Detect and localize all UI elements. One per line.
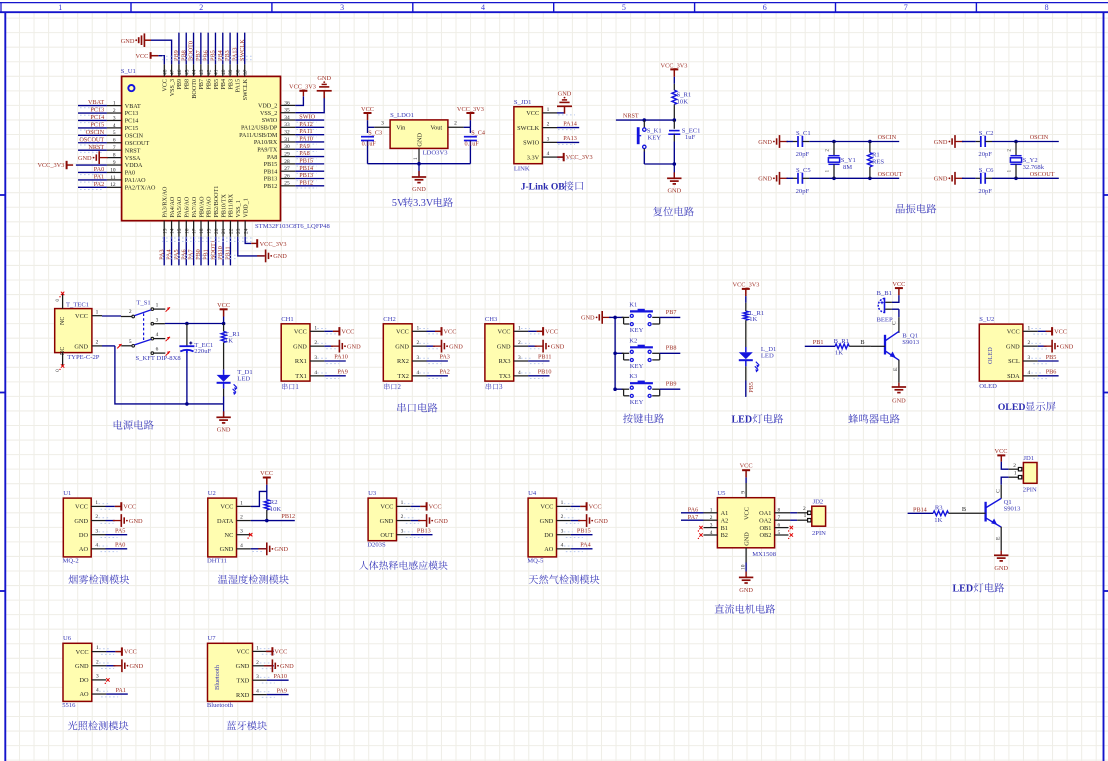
svg-text:5516: 5516	[62, 702, 76, 709]
svg-text:4: 4	[256, 689, 259, 695]
svg-text:OLED: OLED	[987, 347, 994, 364]
svg-text:LINK: LINK	[514, 166, 530, 173]
svg-text:1: 1	[314, 325, 317, 331]
svg-text:CH2: CH2	[383, 316, 395, 323]
svg-text:VDDA: VDDA	[125, 163, 143, 169]
svg-text:2: 2	[129, 309, 132, 315]
svg-text:8: 8	[1045, 3, 1049, 12]
svg-text:VCC: VCC	[1054, 328, 1067, 335]
svg-text:A2: A2	[721, 517, 729, 524]
svg-text:2: 2	[803, 506, 806, 512]
svg-text:43: 43	[199, 69, 205, 75]
svg-text:GND: GND	[1006, 343, 1020, 350]
svg-text:OLED: OLED	[979, 383, 997, 390]
svg-text:VCC: VCC	[498, 329, 511, 336]
svg-text:E: E	[996, 536, 1002, 540]
svg-text:PA3: PA3	[158, 249, 165, 259]
svg-text:VCC: VCC	[429, 504, 442, 511]
svg-text:20pF: 20pF	[796, 188, 810, 195]
svg-text:33: 33	[284, 122, 290, 128]
svg-text:PB7: PB7	[666, 309, 677, 316]
svg-text:PB10: PB10	[538, 368, 552, 375]
svg-text:23: 23	[236, 228, 242, 234]
svg-text:1K: 1K	[225, 337, 233, 344]
svg-text:GND: GND	[380, 518, 394, 525]
svg-text:PC15: PC15	[125, 126, 139, 132]
svg-text:11: 11	[110, 175, 115, 181]
svg-text:4: 4	[156, 332, 159, 338]
svg-text:OUT: OUT	[380, 532, 393, 539]
svg-text:SWIO: SWIO	[262, 118, 278, 124]
svg-text:S_C1: S_C1	[796, 130, 811, 137]
svg-text:PA12/USB/DP: PA12/USB/DP	[241, 126, 278, 132]
svg-text:1: 1	[256, 645, 259, 651]
svg-text:S_LDO1: S_LDO1	[390, 112, 414, 119]
svg-text:E: E	[893, 367, 899, 371]
svg-text:GND: GND	[78, 155, 92, 162]
svg-text:2: 2	[518, 340, 521, 346]
svg-text:3: 3	[1027, 355, 1030, 361]
svg-text:A1: A1	[721, 510, 729, 517]
svg-text:VCC: VCC	[75, 313, 88, 320]
svg-text:PB10/TX: PB10/TX	[221, 194, 227, 218]
svg-text:GND: GND	[667, 188, 681, 195]
svg-text:SDA: SDA	[1007, 373, 1020, 380]
svg-text:2: 2	[401, 514, 404, 520]
svg-text:1: 1	[96, 309, 99, 315]
svg-text:VCC_3V3: VCC_3V3	[37, 162, 64, 169]
svg-text:PB0/AO: PB0/AO	[199, 196, 205, 218]
svg-text:PB2/BOOT1: PB2/BOOT1	[214, 186, 220, 218]
svg-text:NC: NC	[225, 532, 234, 539]
svg-text:DO: DO	[79, 532, 89, 539]
svg-text:VCC: VCC	[294, 329, 307, 336]
svg-text:3: 3	[95, 528, 98, 534]
svg-text:PB5: PB5	[748, 382, 755, 393]
svg-text:220uF: 220uF	[194, 348, 211, 355]
svg-text:OSCIN: OSCIN	[125, 134, 144, 140]
svg-text:VCC: VCC	[396, 329, 409, 336]
svg-text:48: 48	[162, 69, 168, 75]
svg-text:PB4: PB4	[221, 79, 227, 90]
svg-text:PB8: PB8	[666, 345, 677, 352]
svg-text:PC14: PC14	[90, 114, 104, 121]
svg-text:1: 1	[413, 157, 419, 160]
svg-text:35: 35	[284, 108, 290, 114]
svg-text:NRST: NRST	[88, 144, 104, 151]
svg-text:PA12: PA12	[299, 121, 313, 128]
svg-text:PA11: PA11	[299, 128, 312, 135]
svg-text:GND: GND	[273, 253, 287, 260]
svg-text:PB5: PB5	[214, 79, 220, 90]
svg-text:J-Link OB: J-Link OB	[521, 182, 566, 193]
svg-text:PA5: PA5	[115, 528, 125, 535]
svg-text:PC13: PC13	[90, 107, 104, 114]
svg-text:GND: GND	[934, 176, 948, 183]
svg-text:VCC: VCC	[361, 106, 374, 113]
svg-text:2: 2	[95, 514, 98, 520]
svg-text:AO: AO	[544, 546, 554, 553]
svg-text:TX1: TX1	[295, 373, 307, 380]
svg-text:PC15: PC15	[90, 122, 104, 129]
svg-text:25: 25	[284, 181, 290, 187]
svg-text:NRST: NRST	[125, 148, 141, 154]
svg-text:GND: GND	[274, 546, 288, 553]
svg-text:RXD: RXD	[236, 692, 250, 699]
svg-text:VCC: VCC	[545, 328, 558, 335]
svg-text:PB15: PB15	[299, 158, 313, 165]
svg-text:41: 41	[214, 69, 220, 75]
svg-text:2: 2	[113, 108, 116, 114]
svg-text:PA4/AO: PA4/AO	[170, 196, 176, 217]
svg-text:29: 29	[284, 152, 290, 158]
svg-text:5: 5	[113, 130, 116, 136]
svg-text:MQ-2: MQ-2	[63, 558, 79, 565]
svg-text:B_B1: B_B1	[877, 290, 892, 297]
svg-text:VCC: VCC	[526, 110, 539, 117]
svg-text:42: 42	[206, 69, 212, 75]
svg-text:VCC_3V3: VCC_3V3	[289, 84, 316, 91]
svg-text:GND: GND	[347, 344, 361, 351]
svg-text:JD2: JD2	[813, 498, 824, 505]
svg-text:GND: GND	[220, 546, 234, 553]
svg-text:Vout: Vout	[430, 125, 442, 132]
svg-text:3.3V: 3.3V	[413, 198, 434, 209]
svg-text:GND: GND	[417, 133, 424, 147]
svg-text:DO: DO	[79, 677, 89, 684]
svg-text:AO: AO	[79, 691, 89, 698]
svg-text:GND: GND	[758, 139, 772, 146]
svg-text:GND: GND	[497, 343, 511, 350]
svg-text:VCC: VCC	[163, 79, 169, 92]
svg-text:TX3: TX3	[499, 373, 511, 380]
svg-text:3: 3	[156, 317, 159, 323]
svg-text:SWCLK: SWCLK	[517, 125, 539, 132]
svg-text:Bluetooth: Bluetooth	[207, 702, 234, 709]
svg-text:U1: U1	[63, 490, 71, 497]
svg-text:U4: U4	[528, 490, 537, 497]
svg-text:3: 3	[381, 121, 384, 127]
svg-text:S9013: S9013	[1004, 506, 1022, 513]
svg-text:PB10: PB10	[217, 246, 224, 260]
svg-text:PA9: PA9	[277, 687, 287, 694]
svg-text:5: 5	[622, 3, 626, 12]
svg-text:PB11/RX: PB11/RX	[229, 193, 235, 217]
svg-text:S9013: S9013	[902, 339, 920, 346]
svg-text:1: 1	[113, 101, 116, 107]
svg-text:5: 5	[129, 339, 132, 345]
svg-text:PA13: PA13	[563, 135, 577, 142]
svg-text:38: 38	[236, 69, 242, 75]
svg-text:B2: B2	[721, 532, 728, 539]
svg-text:PA1: PA1	[94, 174, 104, 181]
svg-text:OB2: OB2	[759, 532, 771, 539]
svg-text:44: 44	[192, 69, 198, 75]
svg-text:0.1uF: 0.1uF	[362, 141, 377, 148]
svg-text:2: 2	[256, 660, 259, 666]
svg-text:PA0: PA0	[115, 542, 125, 549]
svg-text:6: 6	[778, 523, 781, 529]
svg-text:B_R1: B_R1	[834, 338, 849, 345]
svg-text:VCC: VCC	[995, 448, 1008, 455]
svg-text:PA8: PA8	[299, 150, 309, 157]
svg-text:VCC_3V3: VCC_3V3	[457, 106, 484, 113]
svg-text:VCC_3V3: VCC_3V3	[566, 154, 593, 161]
svg-text:S_C5: S_C5	[796, 167, 811, 174]
svg-text:4: 4	[240, 543, 243, 549]
svg-text:OSCIN: OSCIN	[1030, 134, 1049, 141]
svg-text:PB8: PB8	[185, 79, 191, 90]
svg-text:U5: U5	[717, 490, 726, 497]
svg-text:2: 2	[454, 121, 457, 127]
svg-text:3: 3	[96, 674, 99, 680]
svg-text:6: 6	[113, 138, 116, 144]
svg-text:PB12: PB12	[281, 513, 295, 520]
svg-text:VCC: VCC	[589, 504, 602, 511]
svg-text:T_TEC1: T_TEC1	[66, 302, 89, 309]
svg-text:12: 12	[110, 182, 116, 188]
svg-text:VCC: VCC	[135, 53, 148, 60]
svg-text:10K: 10K	[270, 506, 282, 513]
svg-text:OSCOUT: OSCOUT	[878, 171, 903, 178]
svg-text:2PIN: 2PIN	[1023, 487, 1037, 494]
svg-text:30: 30	[284, 144, 290, 150]
svg-text:PA1/AO: PA1/AO	[125, 178, 146, 184]
svg-text:PA2: PA2	[439, 368, 449, 375]
svg-text:32: 32	[284, 130, 290, 136]
svg-text:GND: GND	[280, 663, 294, 670]
svg-text:45: 45	[184, 69, 190, 75]
svg-text:VDD_2: VDD_2	[258, 104, 277, 110]
svg-text:PB13: PB13	[417, 528, 431, 535]
svg-text:GND: GND	[892, 397, 906, 404]
svg-text:2: 2	[561, 514, 564, 520]
svg-text:C: C	[891, 321, 897, 325]
svg-text:PB7: PB7	[199, 79, 205, 90]
svg-text:GND: GND	[293, 343, 307, 350]
svg-text:U3: U3	[368, 490, 377, 497]
svg-text:1K: 1K	[749, 316, 757, 323]
svg-text:S_C4: S_C4	[471, 130, 485, 137]
svg-text:1K: 1K	[835, 350, 843, 357]
svg-text:OLED: OLED	[998, 402, 1026, 413]
svg-text:37: 37	[243, 69, 249, 75]
svg-text:S_U1: S_U1	[121, 68, 136, 75]
svg-text:PA5/AO: PA5/AO	[177, 196, 183, 217]
svg-text:STM32F103C8T6_LQFP48: STM32F103C8T6_LQFP48	[255, 223, 330, 230]
svg-text:PA7: PA7	[688, 514, 698, 521]
svg-text:SWIO: SWIO	[299, 114, 315, 121]
svg-text:BOOT0: BOOT0	[192, 79, 198, 99]
svg-text:KEY: KEY	[630, 399, 644, 406]
svg-text:T_S1: T_S1	[136, 299, 150, 306]
svg-text:LED: LED	[953, 584, 974, 595]
svg-text:20pF: 20pF	[978, 151, 992, 158]
svg-text:OSCIN: OSCIN	[86, 129, 105, 136]
svg-text:B1: B1	[721, 525, 728, 532]
svg-text:PB5: PB5	[1046, 354, 1057, 361]
svg-text:6: 6	[156, 347, 159, 353]
svg-text:7: 7	[904, 3, 908, 12]
svg-text:GND: GND	[121, 38, 135, 45]
svg-text:3: 3	[416, 355, 419, 361]
svg-text:LED: LED	[761, 353, 774, 360]
svg-text:GND: GND	[217, 427, 231, 434]
svg-text:1: 1	[96, 645, 99, 651]
svg-text:9: 9	[741, 491, 747, 494]
svg-text:4: 4	[96, 688, 99, 694]
svg-text:S_C6: S_C6	[979, 167, 994, 174]
svg-text:18: 18	[199, 228, 205, 234]
svg-text:OSCOUT: OSCOUT	[1030, 171, 1055, 178]
svg-text:PA1: PA1	[116, 687, 126, 694]
svg-text:27: 27	[284, 166, 290, 172]
svg-text:GND: GND	[581, 315, 595, 322]
svg-text:PA4: PA4	[580, 542, 590, 549]
svg-text:GND: GND	[739, 587, 753, 594]
svg-text:GND: GND	[317, 75, 331, 82]
svg-text:DATA: DATA	[217, 518, 234, 525]
svg-text:JD1: JD1	[1023, 455, 1034, 462]
svg-text:PA9: PA9	[299, 143, 309, 150]
svg-text:VCC: VCC	[260, 470, 273, 477]
svg-text:R3: R3	[935, 504, 943, 511]
svg-text:S_U2: S_U2	[979, 316, 994, 323]
svg-text:KEY: KEY	[630, 363, 644, 370]
svg-text:3: 3	[710, 523, 713, 529]
svg-text:PA15: PA15	[236, 79, 242, 92]
svg-text:GND: GND	[449, 344, 463, 351]
svg-text:PC14: PC14	[125, 119, 139, 125]
svg-text:4: 4	[710, 530, 713, 536]
svg-text:PA9/TX: PA9/TX	[257, 148, 278, 154]
svg-text:VCC: VCC	[220, 504, 233, 511]
svg-text:3.3V: 3.3V	[527, 154, 540, 161]
svg-text:PB14: PB14	[913, 506, 927, 513]
svg-text:CH3: CH3	[485, 316, 498, 323]
svg-text:1: 1	[95, 500, 98, 506]
svg-text:6: 6	[763, 3, 767, 12]
svg-text:3: 3	[561, 528, 564, 534]
svg-text:2: 2	[547, 122, 550, 128]
svg-text:SWCLK: SWCLK	[239, 39, 246, 61]
svg-text:1K: 1K	[934, 517, 942, 524]
svg-text:GND: GND	[594, 518, 608, 525]
svg-text:4: 4	[314, 370, 317, 376]
svg-text:OSCIN: OSCIN	[878, 134, 897, 141]
svg-text:2: 2	[199, 3, 203, 12]
svg-text:OA1: OA1	[759, 510, 771, 517]
svg-text:1: 1	[804, 513, 807, 519]
svg-text:S_JD1: S_JD1	[514, 99, 532, 106]
svg-text:10K: 10K	[677, 98, 689, 105]
svg-text:GND: GND	[551, 344, 565, 351]
svg-text:VCC: VCC	[341, 328, 354, 335]
svg-text:7: 7	[778, 515, 781, 521]
svg-text:PA3/RX/AO: PA3/RX/AO	[163, 186, 169, 218]
svg-text:21: 21	[221, 228, 227, 234]
svg-text:1: 1	[561, 500, 564, 506]
svg-text:VCC: VCC	[1007, 329, 1020, 336]
svg-text:B: B	[962, 506, 966, 513]
svg-text:U6: U6	[63, 635, 72, 642]
svg-text:9: 9	[113, 160, 116, 166]
svg-text:S_KFT DIP-8X8: S_KFT DIP-8X8	[136, 355, 182, 362]
svg-text:20pF: 20pF	[796, 151, 810, 158]
svg-text:B: B	[860, 339, 864, 346]
svg-text:GND: GND	[540, 518, 554, 525]
svg-text:16: 16	[184, 228, 190, 234]
svg-text:OB1: OB1	[759, 525, 771, 532]
svg-text:47: 47	[170, 69, 176, 75]
svg-text:1: 1	[547, 107, 550, 113]
svg-text:RX3: RX3	[499, 358, 511, 365]
svg-text:19: 19	[207, 228, 213, 234]
svg-text:PB15: PB15	[577, 528, 591, 535]
svg-text:VCC: VCC	[444, 328, 457, 335]
svg-text:4: 4	[481, 3, 485, 12]
svg-text:PB14: PB14	[264, 169, 278, 175]
svg-text:GND: GND	[236, 663, 250, 670]
svg-text:S_C3: S_C3	[368, 130, 382, 137]
svg-text:GND: GND	[934, 139, 948, 146]
svg-text:PB12: PB12	[264, 184, 278, 190]
svg-text:VCC: VCC	[743, 507, 750, 520]
svg-text:4: 4	[95, 543, 98, 549]
svg-text:1: 1	[295, 384, 298, 391]
svg-text:PA0: PA0	[125, 171, 135, 177]
svg-text:GND: GND	[758, 176, 772, 183]
svg-text:U7: U7	[208, 635, 217, 642]
svg-text:28: 28	[284, 159, 290, 165]
svg-text:1: 1	[710, 508, 713, 514]
svg-text:PB1: PB1	[813, 339, 824, 346]
svg-text:PA14: PA14	[563, 120, 577, 127]
svg-text:2: 2	[398, 384, 402, 391]
svg-text:PB6: PB6	[207, 79, 213, 90]
svg-text:VCC: VCC	[540, 504, 553, 511]
svg-text:2: 2	[416, 340, 419, 346]
svg-text:PA11/USB/DM: PA11/USB/DM	[239, 133, 278, 139]
svg-text:PB9: PB9	[177, 79, 183, 90]
svg-text:4: 4	[113, 123, 116, 129]
svg-text:1: 1	[401, 500, 404, 506]
svg-text:39: 39	[228, 69, 234, 75]
svg-text:GND: GND	[994, 565, 1008, 572]
svg-text:3: 3	[499, 384, 503, 391]
svg-text:1: 1	[1027, 325, 1030, 331]
svg-text:KEY: KEY	[630, 327, 644, 334]
svg-text:TX2: TX2	[397, 373, 409, 380]
svg-text:NC: NC	[60, 317, 66, 325]
svg-text:2PIN: 2PIN	[812, 530, 826, 537]
svg-text:36: 36	[284, 100, 290, 106]
svg-text:GND: GND	[75, 663, 89, 670]
svg-text:PA2: PA2	[94, 181, 104, 188]
svg-text:GND: GND	[130, 663, 144, 670]
svg-text:3: 3	[256, 674, 259, 680]
svg-text:1uF: 1uF	[685, 134, 696, 141]
svg-text:PB1/AO: PB1/AO	[207, 196, 213, 218]
svg-text:15: 15	[177, 228, 183, 234]
svg-text:14: 14	[170, 228, 176, 234]
svg-text:PA6: PA6	[688, 506, 698, 513]
svg-text:PA10: PA10	[334, 353, 348, 360]
svg-text:DO: DO	[544, 532, 554, 539]
svg-text:VCC: VCC	[76, 649, 89, 656]
svg-text:BOOT0: BOOT0	[188, 41, 195, 61]
svg-text:PB14: PB14	[299, 165, 313, 172]
